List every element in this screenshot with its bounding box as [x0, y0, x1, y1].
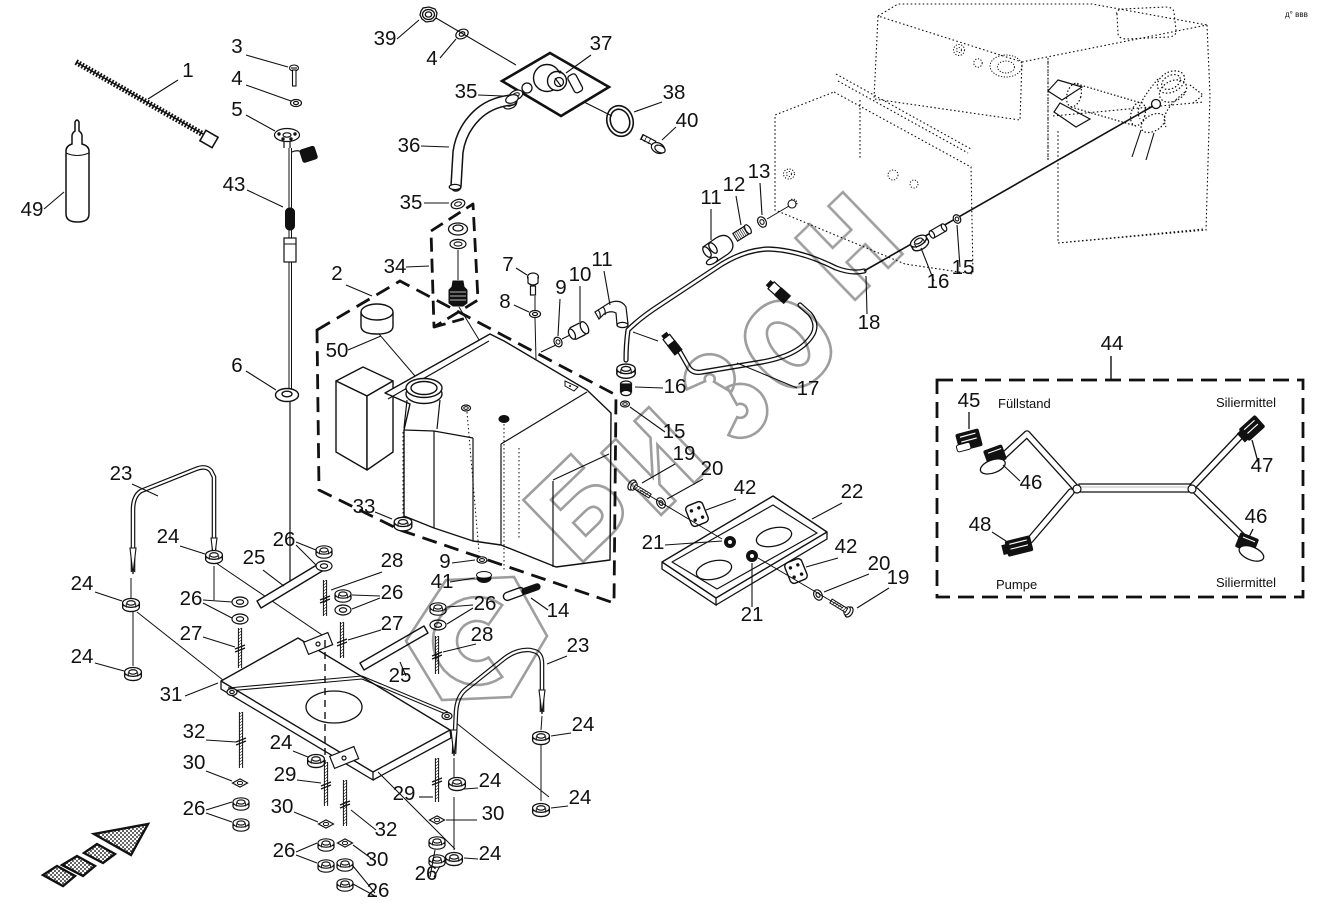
label 50	[326, 339, 349, 362]
svg-text:20: 20	[701, 457, 724, 480]
part 24 nut d4 side a	[449, 778, 466, 791]
wire 7-8 axis	[534, 296, 536, 310]
part 26 nuts d3	[337, 859, 353, 871]
part 27 bolt b	[339, 622, 341, 658]
part 24 nut right leg	[206, 551, 223, 564]
hose 17 left end fitting	[660, 331, 683, 356]
svg-text:Siliermittel: Siliermittel	[1216, 575, 1276, 590]
label 9a	[555, 276, 566, 299]
tank dotted guide lines	[403, 412, 519, 572]
part 26 nuts d4	[429, 837, 445, 849]
leader 6	[246, 371, 276, 390]
part 22 tray	[662, 496, 827, 598]
leader 3	[246, 55, 288, 67]
leader 25b	[400, 662, 406, 676]
machine hatch opening on top	[1117, 7, 1177, 39]
part 31 base plate	[221, 638, 450, 772]
label 26 d3	[367, 879, 390, 902]
svg-text:7: 7	[502, 253, 513, 276]
svg-text:35: 35	[400, 191, 423, 214]
svg-text:24: 24	[270, 731, 293, 754]
part 19 bolt b	[828, 596, 855, 618]
leader 10	[579, 286, 581, 322]
svg-text:48: 48	[969, 513, 992, 536]
part 24 nut left leg	[123, 599, 140, 612]
svg-text:37: 37	[590, 32, 613, 55]
label 22	[841, 480, 864, 503]
leader 46b	[1249, 529, 1253, 537]
label 6	[231, 354, 242, 377]
machine hole for hose	[788, 200, 796, 208]
svg-text:4: 4	[231, 67, 242, 90]
part 26 washer u3	[335, 605, 351, 615]
part 40 screw	[640, 134, 667, 156]
leader 16a	[921, 248, 934, 281]
part 21 nut b	[746, 550, 758, 562]
harness right junction	[1188, 485, 1196, 493]
svg-text:26: 26	[273, 839, 296, 862]
svg-text:6: 6	[231, 354, 242, 377]
label 35b	[400, 191, 423, 214]
part 3 screw	[290, 65, 299, 86]
harness left junction	[1073, 485, 1081, 493]
tank top small ring	[462, 405, 471, 411]
leader 32a	[206, 740, 236, 742]
part 29 bolt a	[323, 762, 325, 806]
tray hole a	[754, 524, 793, 550]
svg-text:47: 47	[1251, 454, 1274, 477]
label 24b	[71, 572, 94, 595]
leader 23b	[547, 656, 567, 664]
label 11b	[700, 186, 721, 209]
leader 44	[1110, 356, 1112, 379]
svg-text:19: 19	[887, 566, 910, 589]
machine hose stub cylinder	[1064, 82, 1148, 128]
label 45	[958, 389, 981, 412]
part 29 bolt b	[434, 758, 436, 802]
part 47 connector	[1235, 415, 1265, 444]
svg-text:2: 2	[331, 262, 342, 285]
label 43	[223, 173, 246, 196]
label 8	[499, 290, 510, 313]
label 15a	[952, 256, 975, 279]
label 27a	[180, 622, 203, 645]
svg-text:46: 46	[1245, 505, 1268, 528]
leader 5	[246, 115, 275, 131]
label 20b	[868, 552, 891, 575]
svg-text:26: 26	[381, 581, 404, 604]
svg-text:9: 9	[555, 276, 566, 299]
leader 26 d4 fork	[430, 850, 435, 877]
svg-text:11: 11	[700, 186, 721, 209]
label 48	[969, 513, 992, 536]
svg-text:10: 10	[569, 263, 592, 286]
leader 48	[992, 532, 1006, 541]
leader 24e	[551, 733, 571, 736]
label 26 u2	[273, 528, 296, 551]
leader 27b	[348, 630, 381, 640]
svg-text:26: 26	[273, 528, 296, 551]
part 4 washer b	[454, 27, 470, 41]
label 26 u4	[474, 592, 497, 615]
leader 29a	[297, 780, 321, 783]
label 24a	[157, 525, 180, 548]
part 30 diamond c	[338, 839, 353, 847]
leader 20a	[667, 479, 703, 499]
leader 26 u2 fork	[296, 542, 316, 550]
svg-text:30: 30	[271, 795, 294, 818]
leader 24h	[464, 858, 478, 859]
leader 20b	[824, 574, 869, 592]
leader 26 d2 fork	[296, 843, 317, 852]
svg-text:50: 50	[326, 339, 349, 362]
leader 11b	[710, 209, 712, 240]
label 1	[182, 59, 193, 82]
tank filler neck	[406, 379, 442, 404]
part 41 grommet	[477, 573, 492, 583]
machine chassis right box	[1053, 25, 1210, 243]
label 46b	[1245, 505, 1268, 528]
label 24f	[569, 786, 592, 809]
part 33 nut	[394, 517, 412, 531]
svg-text:34: 34	[384, 255, 407, 278]
leader 24a	[180, 546, 205, 554]
svg-text:12: 12	[723, 173, 746, 196]
machine spout lower lines	[1132, 130, 1154, 160]
svg-text:24: 24	[569, 786, 592, 809]
leader 7	[516, 268, 527, 275]
label 26 d2	[273, 839, 296, 862]
svg-text:29: 29	[274, 763, 297, 786]
leader 35a	[478, 95, 503, 96]
svg-text:Pumpe: Pumpe	[996, 577, 1037, 592]
svg-text:32: 32	[183, 720, 206, 743]
tank cap 50	[361, 304, 393, 334]
part 32 bolt a	[238, 712, 240, 768]
part 26 nut u4	[430, 603, 446, 615]
part 34 o-ring	[450, 239, 466, 248]
part 34 lower axis wire	[459, 307, 484, 348]
leader 24f	[551, 806, 568, 808]
part 36 hose	[456, 100, 512, 186]
label 33	[353, 495, 376, 518]
leader 32b	[351, 810, 376, 830]
label 46a	[1020, 471, 1043, 494]
label 23a	[110, 462, 133, 485]
tank top grommet	[499, 416, 509, 423]
part 28 bolt b	[434, 636, 436, 674]
label 13	[748, 160, 771, 183]
watermark letter B	[523, 452, 632, 562]
label 25b	[389, 664, 412, 687]
part 21 nut a	[724, 536, 736, 548]
hose17 port axis wire	[633, 332, 658, 341]
label 40	[676, 109, 699, 132]
svg-text:д° ввв: д° ввв	[1285, 10, 1308, 19]
plate hole ellipse	[306, 691, 362, 723]
leader 38	[634, 102, 662, 112]
machine top face small circles	[784, 45, 1049, 208]
leader 2	[346, 285, 372, 296]
leader 4b	[440, 39, 456, 58]
svg-text:36: 36	[398, 134, 421, 157]
label 44	[1101, 332, 1124, 355]
leader 9a	[558, 299, 560, 336]
leader 30a	[206, 771, 232, 781]
tray hole b	[694, 557, 733, 583]
svg-text:27: 27	[381, 612, 404, 635]
leader 18	[866, 276, 867, 314]
leader 21a	[665, 541, 722, 545]
leader 40	[662, 127, 676, 140]
leader 11a	[604, 271, 610, 305]
part 37 pump plate	[502, 53, 609, 116]
leader 17	[737, 363, 797, 388]
svg-text:33: 33	[353, 495, 376, 518]
label 42a	[734, 476, 757, 499]
svg-text:27: 27	[180, 622, 203, 645]
leader 50	[348, 336, 381, 350]
part 30 diamond a	[233, 779, 248, 787]
part 27 bolt a	[237, 628, 239, 668]
leader 31	[185, 683, 218, 696]
svg-text:16: 16	[927, 270, 950, 293]
part 43 sensor rod	[284, 146, 318, 392]
svg-text:30: 30	[183, 751, 206, 774]
label 28a	[381, 549, 404, 572]
label 18	[858, 311, 881, 334]
tank left box	[336, 367, 393, 396]
watermark letter I	[601, 407, 708, 515]
part 2 dashed tank envelope	[317, 281, 616, 603]
svg-text:3: 3	[231, 35, 242, 58]
svg-text:16: 16	[664, 375, 687, 398]
watermark logo hexagon	[406, 577, 547, 700]
leader 24g	[464, 788, 478, 789]
axis wire 13 to machine hole	[767, 206, 789, 219]
label 24e	[572, 713, 595, 736]
label 5	[231, 98, 242, 121]
svg-text:25: 25	[243, 546, 266, 569]
leader 16b	[635, 387, 663, 388]
label 9b	[439, 550, 450, 573]
plate diag axis wires	[455, 722, 549, 797]
svg-text:38: 38	[663, 81, 686, 104]
svg-text:30: 30	[366, 848, 389, 871]
machine filler spout	[1138, 66, 1191, 136]
leader 8	[514, 305, 529, 312]
part 16 nut b	[909, 233, 931, 254]
label 7	[502, 253, 513, 276]
machine chassis upper box	[775, 4, 1210, 274]
part 35 ring c	[450, 198, 466, 210]
svg-text:5: 5	[231, 98, 242, 121]
svg-text:Siliermittel: Siliermittel	[1216, 395, 1276, 410]
part 34 stack axis wire	[457, 250, 459, 280]
label 42b	[835, 535, 858, 558]
assembly axis 39-37-38-40	[436, 18, 516, 65]
part 26 nut u2	[316, 546, 332, 558]
part 15 ring b	[952, 213, 963, 224]
part 8 washer	[530, 311, 541, 318]
leader 26 d1 fork	[206, 802, 232, 810]
label 23b	[567, 634, 590, 657]
part 30 diamond d	[430, 816, 445, 824]
label 49	[21, 198, 44, 221]
watermark letter N	[795, 192, 902, 300]
label 30a	[183, 751, 206, 774]
svg-text:22: 22	[841, 480, 864, 503]
part 7 bolt	[528, 273, 539, 295]
part 9 ring b	[477, 557, 487, 563]
label 28b	[471, 623, 494, 646]
leader 24b	[95, 592, 122, 601]
leader 26 u4 fork	[447, 605, 473, 607]
label 34	[384, 255, 407, 278]
svg-text:29: 29	[393, 782, 416, 805]
part 34 dashed box	[431, 204, 478, 327]
leader 24c	[95, 663, 124, 671]
leader 45	[968, 412, 970, 429]
label 10	[569, 263, 592, 286]
watermark logo C swirl	[433, 597, 502, 685]
leader 21b	[751, 563, 753, 607]
plate bracket tab bottom	[330, 747, 359, 769]
label 21b	[741, 603, 764, 626]
svg-text:26: 26	[474, 592, 497, 615]
svg-text:40: 40	[676, 109, 699, 132]
leader 25a	[263, 570, 284, 586]
part 34 grommet	[449, 223, 468, 235]
part 24 nut d4 side b	[446, 853, 463, 866]
part 39 nut	[420, 7, 437, 22]
leader 9b	[452, 560, 475, 563]
svg-text:1: 1	[182, 59, 193, 82]
svg-text:31: 31	[160, 683, 183, 706]
leader 29b	[419, 796, 433, 798]
label 26 u3	[381, 581, 404, 604]
svg-text:26: 26	[183, 797, 206, 820]
part 26 washer u4	[430, 620, 446, 630]
label 29b	[393, 782, 416, 805]
leader 12	[736, 196, 741, 225]
svg-text:23: 23	[110, 462, 133, 485]
label 41	[431, 570, 454, 593]
label 37	[590, 32, 613, 55]
label 2	[331, 262, 342, 285]
plate corner washer left	[227, 689, 237, 696]
part 26 nut u3	[335, 590, 351, 602]
part 5 flange	[275, 129, 300, 149]
part 9 ring a	[552, 336, 563, 348]
part 42 bracket a	[685, 500, 710, 527]
label 20a	[701, 457, 724, 480]
part 46 connector a	[974, 444, 1010, 477]
label 26 u1	[180, 587, 203, 610]
label 16a	[927, 270, 950, 293]
leader 13	[760, 183, 762, 215]
svg-text:39: 39	[374, 27, 397, 50]
svg-text:26: 26	[415, 862, 438, 885]
plate corner washer right	[442, 713, 452, 720]
part 32 bolt b	[342, 780, 344, 826]
svg-text:13: 13	[748, 160, 771, 183]
label 32b	[375, 818, 398, 841]
part 24 nut lower left	[125, 668, 142, 681]
machine spout hole ring	[1152, 100, 1161, 109]
leader 14	[531, 598, 548, 610]
label 16b	[664, 375, 687, 398]
svg-text:30: 30	[482, 802, 505, 825]
label 4	[231, 67, 242, 90]
part 44 dashed box	[937, 380, 1303, 597]
label 17	[797, 377, 820, 400]
label 15b	[663, 420, 686, 443]
hose 17 right end fitting	[764, 279, 791, 305]
label 26 d4	[415, 862, 438, 885]
part 14 pin	[502, 582, 541, 601]
plate long strip	[228, 676, 448, 715]
leader 26 u3 fork	[352, 595, 380, 596]
label 4b	[426, 47, 437, 70]
part 49 cartridge tube	[66, 120, 89, 222]
leader 30b	[294, 812, 318, 822]
part 34 leader dashes to tank	[434, 317, 470, 327]
u-bolt right axis wires	[453, 758, 455, 782]
svg-text:24: 24	[479, 769, 502, 792]
svg-text:44: 44	[1101, 332, 1124, 355]
part 4 washer	[291, 100, 302, 107]
svg-text:4: 4	[426, 47, 437, 70]
svg-text:23: 23	[567, 634, 590, 657]
leader 19a	[642, 464, 675, 483]
leader 27a	[203, 637, 235, 647]
part 25 strap b	[360, 626, 428, 670]
leader 35b	[424, 202, 449, 204]
svg-text:15: 15	[952, 256, 975, 279]
label 14	[547, 599, 570, 622]
part 11 elbow a	[595, 301, 628, 327]
label 30c	[366, 848, 389, 871]
svg-text:24: 24	[157, 525, 180, 548]
leader 49	[44, 192, 64, 209]
part 15 ring a	[621, 401, 630, 407]
leader 42a	[706, 499, 736, 510]
tray axis wire b	[758, 558, 843, 608]
label 19b	[887, 566, 910, 589]
leader 1	[148, 80, 178, 99]
leader 37	[566, 55, 591, 73]
part 20 washer a	[655, 496, 667, 510]
leader 26 u1 fork	[203, 600, 232, 602]
label 39	[374, 27, 397, 50]
axis wire 9-10-11	[541, 345, 556, 352]
label 32a	[183, 720, 206, 743]
machine bracket arrows	[1048, 80, 1203, 127]
part 26 washers column u1	[232, 597, 248, 607]
svg-text:43: 43	[223, 173, 246, 196]
svg-text:28: 28	[471, 623, 494, 646]
svg-text:8: 8	[499, 290, 510, 313]
leader 15b	[630, 407, 665, 432]
u-bolt left axis wires	[216, 563, 328, 639]
svg-text:35: 35	[455, 80, 478, 103]
label 25a	[243, 546, 266, 569]
part 30 diamond b	[319, 820, 334, 828]
label 30b	[271, 795, 294, 818]
part 19 bolt a	[626, 479, 653, 501]
label 35a	[455, 80, 478, 103]
